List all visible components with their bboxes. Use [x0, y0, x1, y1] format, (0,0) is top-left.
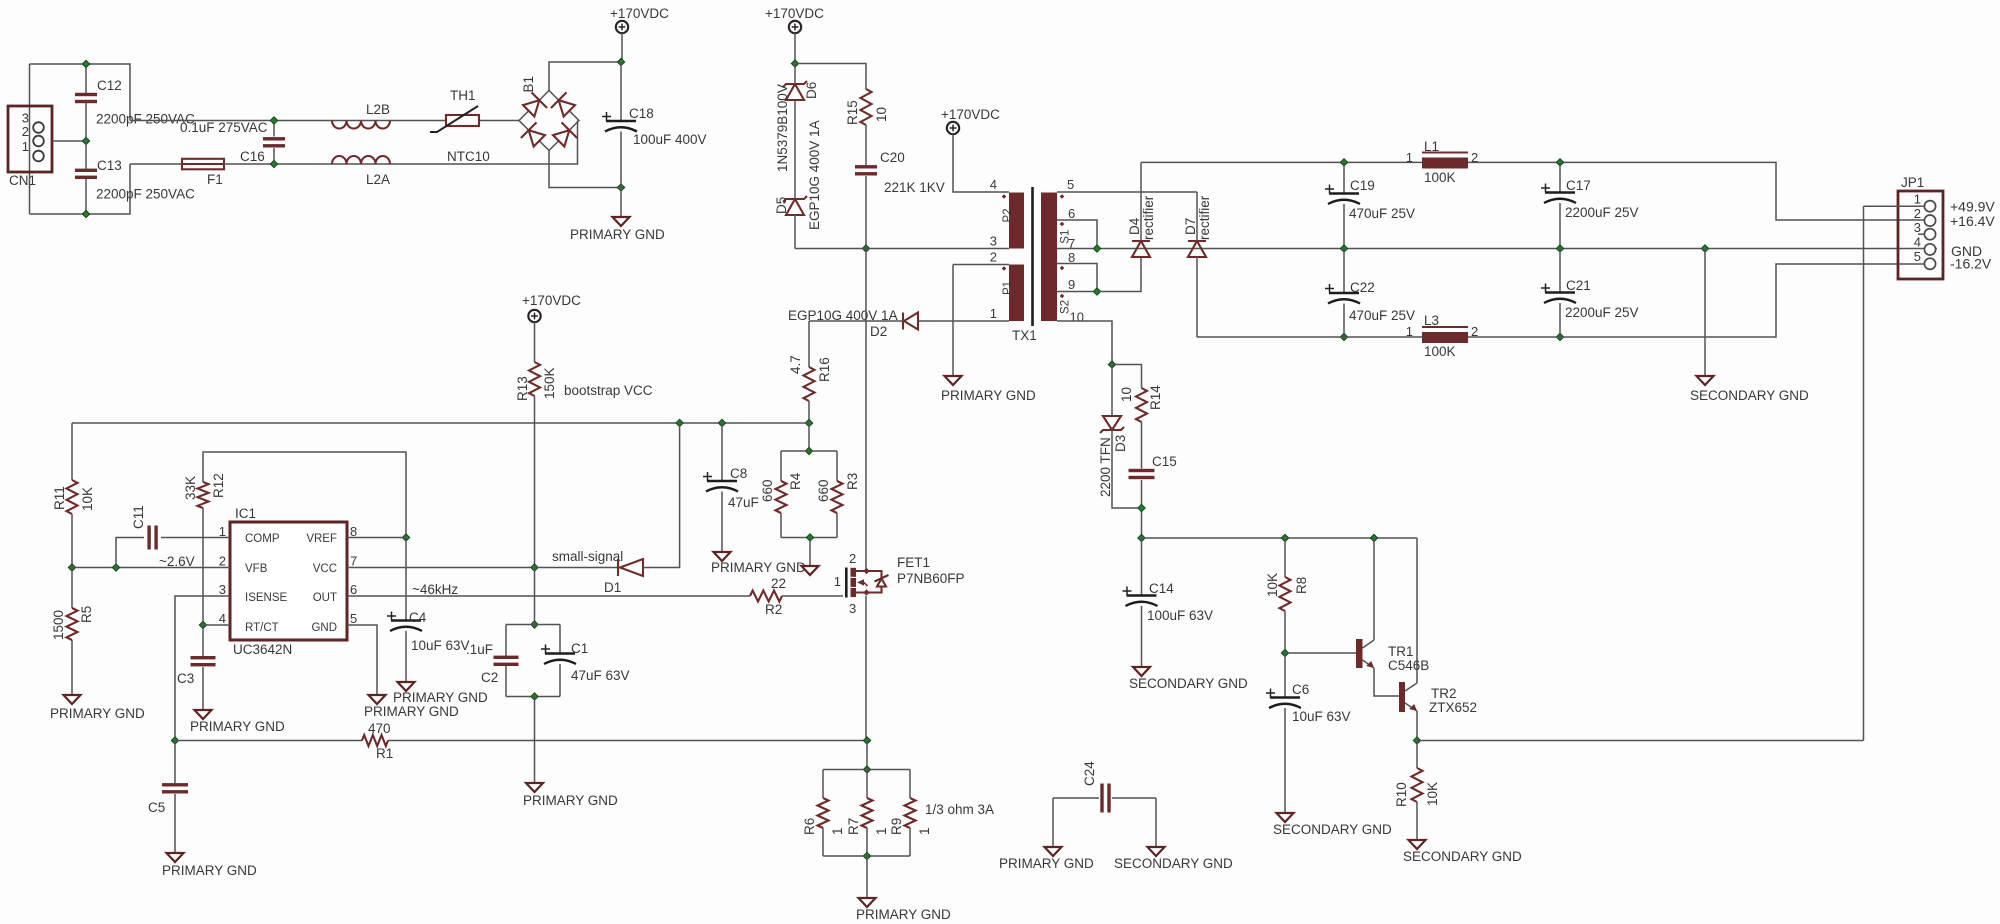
wire clamp top to R15 [795, 64, 866, 90]
svg-text:C546B: C546B [1388, 658, 1429, 673]
junction C12/C13 mid [82, 137, 89, 144]
svg-text:10: 10 [1070, 310, 1084, 325]
svg-text:R6: R6 [802, 818, 817, 835]
resistor R11 [67, 480, 78, 514]
wire C18 lower [620, 132, 622, 217]
ground SECONDARY GND (mid rail) [1697, 376, 1714, 385]
wire C6 top [1284, 653, 1286, 697]
svg-text:1: 1 [1406, 150, 1413, 165]
svg-text:C19: C19 [1350, 178, 1375, 193]
svg-text:COMP: COMP [245, 533, 280, 545]
svg-text:L2B: L2B [366, 102, 390, 117]
wire R7 upper [866, 770, 868, 799]
svg-text:C6: C6 [1292, 682, 1309, 697]
ground PRIMARY GND (C8) [714, 552, 731, 561]
svg-text:PRIMARY GND: PRIMARY GND [50, 706, 145, 721]
svg-text:3: 3 [1914, 220, 1921, 235]
svg-text:L1: L1 [1424, 139, 1439, 154]
wire +50V rail left [1141, 161, 1422, 163]
transistor TR1 (C546B) [1356, 639, 1374, 668]
svg-text:PRIMARY GND: PRIMARY GND [190, 719, 285, 734]
wire C2 top [505, 625, 507, 657]
svg-text:.1uF: .1uF [466, 642, 493, 657]
wire R14 to C15 [1141, 422, 1143, 469]
wire R15 to C20 [865, 125, 867, 165]
wire R9 upper [909, 770, 911, 799]
junction R4/R3 bottom [806, 534, 813, 541]
svg-text:2: 2 [849, 551, 856, 566]
diode D5 [783, 196, 807, 215]
svg-text:rectifier: rectifier [1141, 195, 1156, 240]
wire to secondary gnd [1704, 249, 1706, 376]
ground PRIMARY GND (IC1) [369, 695, 386, 704]
svg-text:C20: C20 [880, 150, 905, 165]
wire rail to R11 [71, 423, 73, 480]
wire C17 top [1559, 162, 1561, 191]
svg-text:0.1uF 275VAC: 0.1uF 275VAC [180, 120, 268, 135]
wire C4 to gnd [405, 631, 407, 681]
wire to C5 [174, 741, 176, 784]
svg-text:small-signal: small-signal [552, 549, 623, 564]
wire R16 to bootstrap rail [808, 401, 810, 423]
capacitor C20 [855, 165, 877, 175]
wire D5 anode to pin3 rail [794, 215, 796, 249]
svg-text:D3: D3 [1113, 435, 1128, 452]
capacitor C5 [162, 783, 188, 793]
svg-text:5: 5 [1067, 177, 1074, 192]
svg-text:1: 1 [917, 827, 932, 835]
wire C3 to gnd [202, 667, 204, 709]
svg-text:1: 1 [834, 574, 841, 589]
wire L1 to JP1 pin2 [1468, 162, 1924, 220]
wire C1 top [559, 625, 561, 653]
wire VFB line [72, 567, 230, 569]
ground SECONDARY GND (C24) [1148, 847, 1165, 856]
svg-text:OUT: OUT [313, 592, 337, 604]
junction C18 top [617, 58, 624, 65]
svg-text:10: 10 [1119, 387, 1134, 402]
svg-text:SECONDARY GND: SECONDARY GND [1403, 849, 1522, 864]
wire D6 to D5 [794, 100, 796, 199]
wire C16 bottom [273, 148, 275, 164]
wire C6 bottom [1284, 708, 1286, 812]
svg-text:D5: D5 [774, 197, 789, 214]
inductor L3 [1422, 327, 1468, 343]
wire RT/CT pin4 [203, 624, 230, 626]
junction C18 bottom [617, 184, 624, 191]
svg-text:6: 6 [1068, 206, 1075, 221]
wire C24 right [1112, 797, 1156, 799]
wire TX1 pin5 to D7 cathode [1057, 191, 1197, 193]
svg-text:UC3642N: UC3642N [233, 642, 292, 657]
wire C8 bottom [721, 492, 723, 552]
wire lower AC rail left [130, 163, 182, 165]
svg-text:470: 470 [368, 721, 391, 736]
wire C14 bottom [1141, 606, 1143, 666]
svg-text:C16: C16 [240, 149, 265, 164]
resistor R8 [1280, 577, 1291, 611]
resistor R10 [1412, 768, 1423, 802]
wire R8 lower [1284, 611, 1286, 653]
capacitor C2 [494, 656, 519, 666]
svg-text:P1: P1 [1002, 281, 1014, 295]
svg-text:C8: C8 [730, 466, 747, 481]
ground PRIMARY GND (C4) [398, 682, 415, 691]
wire R6 lower [822, 828, 824, 856]
wire R5 to gnd [71, 640, 73, 694]
svg-text:+170VDC: +170VDC [610, 6, 669, 21]
junction TR2 emitter [1413, 737, 1420, 744]
wire C1 bottom [559, 664, 561, 697]
wire bottom loop to lower AC rail [30, 164, 131, 214]
svg-text:100uF 400V: 100uF 400V [633, 132, 707, 147]
wire C12 bottom [85, 103, 87, 141]
svg-text:PRIMARY GND: PRIMARY GND [364, 704, 459, 719]
wire OUT line [347, 595, 750, 597]
ground PRIMARY GND (C1/C2) [526, 783, 543, 792]
wire +49.9V feedback riser [1863, 206, 1865, 740]
svg-text:NTC10: NTC10 [447, 149, 490, 164]
svg-text:CN1: CN1 [9, 173, 36, 188]
wire R6 upper [822, 770, 824, 799]
svg-text:660: 660 [760, 479, 775, 502]
wire C20 to pin3 rail [865, 176, 867, 249]
junction mid rail C19/C22 [1340, 245, 1347, 252]
junction D3/C15 [1138, 504, 1145, 511]
wire cap pair top [506, 624, 560, 626]
wire collector rail [1142, 537, 1418, 539]
wire +170VDC to D6 [794, 33, 796, 64]
capacitor C18 [602, 112, 637, 132]
resistor R1 [362, 735, 388, 746]
zener diode D3 [1100, 416, 1124, 433]
svg-text:PRIMARY GND: PRIMARY GND [999, 856, 1094, 871]
svg-text:+16.4V: +16.4V [1950, 213, 1995, 229]
wire C17 bottom [1559, 203, 1561, 249]
wire D7 cathode up [1196, 192, 1198, 241]
wire R12 bottom to RT/CT [202, 508, 204, 625]
svg-text:+170VDC: +170VDC [765, 6, 824, 21]
supply +170VDC (clamp) [789, 21, 801, 33]
ground SECONDARY GND (C14) [1133, 667, 1150, 676]
ground SECONDARY GND (C6) [1277, 813, 1294, 822]
junction FET source/R1 rail [863, 737, 870, 744]
svg-text:C17: C17 [1566, 178, 1591, 193]
ground PRIMARY GND (C3) [195, 710, 212, 719]
wire C8 top [721, 423, 723, 480]
ground SECONDARY GND (R10) [1409, 840, 1426, 849]
ground PRIMARY GND (C18) [613, 217, 630, 226]
wire R4/R3 bottom bar [781, 537, 837, 539]
junction C16 bottom [270, 160, 277, 167]
wire R4 upper [780, 451, 782, 481]
svg-text:10K: 10K [80, 487, 95, 511]
wire C16 top [273, 121, 275, 137]
zener diode D6 [783, 81, 807, 100]
svg-text:B1: B1 [521, 76, 536, 93]
svg-text:SECONDARY GND: SECONDARY GND [1114, 856, 1233, 871]
svg-text:150K: 150K [542, 367, 557, 399]
capacitor C22 [1325, 284, 1360, 304]
svg-text:C3: C3 [177, 671, 194, 686]
svg-text:C1: C1 [571, 641, 588, 656]
wire TX1 pin6 loop [1057, 220, 1097, 249]
junction C21 bottom [1556, 333, 1563, 340]
bridge rectifier B1 [519, 91, 579, 151]
svg-text:6: 6 [350, 582, 357, 597]
wire bootstrap VCC rail [72, 422, 809, 424]
wire C19 top [1343, 162, 1345, 192]
wire R11 to VFB node [71, 514, 73, 568]
svg-text:2200uF 25V: 2200uF 25V [1565, 305, 1639, 320]
svg-text:1N5379B100V: 1N5379B100V [775, 84, 790, 172]
wire C15 to collector rail [1141, 480, 1143, 538]
wire VFB node to R5 [71, 568, 73, 609]
svg-text:C21: C21 [1566, 278, 1591, 293]
diode D2 [903, 313, 918, 330]
wire D6 cathode [794, 64, 796, 85]
wire shunt bottom bar [823, 855, 910, 857]
connector CN1 [8, 106, 52, 172]
svg-text:C22: C22 [1350, 280, 1375, 295]
wire R1 rail left [175, 740, 362, 742]
svg-text:TX1: TX1 [1012, 328, 1037, 343]
thermistor TH1 [430, 106, 479, 132]
svg-text:4: 4 [219, 611, 226, 626]
wire R2 to FET gate [782, 595, 843, 597]
svg-text:4: 4 [1914, 235, 1921, 250]
resistor R9 [905, 798, 916, 828]
ground PRIMARY GND (shunt) [859, 898, 876, 907]
svg-text:GND: GND [311, 622, 337, 634]
svg-text:TR1: TR1 [1388, 644, 1414, 659]
wire TX1 pin8 loop [1057, 264, 1097, 292]
wire source to shunt top [866, 741, 868, 770]
svg-text:2200 TFN: 2200 TFN [1098, 437, 1113, 497]
capacitor C8 [703, 472, 738, 492]
svg-text:4.7: 4.7 [788, 355, 803, 374]
svg-text:33K: 33K [183, 476, 198, 500]
junction shunt top [863, 766, 870, 773]
wire emitter to +49.9V riser [1417, 740, 1864, 742]
junction pin10/R14/D3 [1108, 361, 1115, 368]
junction pin6/pin7 [1093, 245, 1100, 252]
svg-text:221K 1KV: 221K 1KV [884, 180, 945, 195]
wire C5 to gnd [174, 794, 176, 852]
wire shunt top bar [823, 769, 910, 771]
svg-text:SECONDARY GND: SECONDARY GND [1273, 822, 1392, 837]
wire R9 lower [909, 828, 911, 856]
junction C17 top [1556, 159, 1563, 166]
svg-text:P7NB60FP: P7NB60FP [897, 571, 965, 586]
svg-text:R16: R16 [817, 357, 832, 382]
junction mid rail C17/C21 [1556, 245, 1563, 252]
wire C11 to COMP pin1 [161, 537, 230, 539]
wire TR2 collector riser [1416, 538, 1418, 683]
junction C8 top [718, 419, 725, 426]
wire VREF to C4 [405, 538, 407, 620]
junction ISENSE/R1 [171, 737, 178, 744]
capacitor C19 [1325, 185, 1360, 205]
svg-text:RT/CT: RT/CT [245, 622, 279, 634]
svg-text:-16.2V: -16.2V [1950, 256, 1992, 272]
junction C2/C1 top [531, 621, 538, 628]
svg-text:3: 3 [219, 582, 226, 597]
wire D7 anode to bottom rail [1196, 257, 1198, 337]
svg-text:IC1: IC1 [235, 506, 256, 521]
wire JP1 pin1 [1864, 205, 1925, 207]
resistor R6 [818, 798, 829, 828]
wire C13 top [85, 141, 87, 169]
junction C16 top [270, 117, 277, 124]
inductor L2B [332, 121, 390, 129]
wire down to R16 [808, 321, 810, 367]
svg-text:5: 5 [1914, 249, 1921, 264]
svg-text:100K: 100K [1424, 344, 1456, 359]
capacitor C15 [1129, 469, 1155, 479]
svg-text:1: 1 [830, 827, 845, 835]
svg-text:1: 1 [22, 139, 29, 154]
wire R10 lower [1416, 802, 1418, 839]
svg-text:S1: S1 [1060, 230, 1072, 244]
svg-text:2: 2 [22, 124, 29, 139]
svg-text:D7: D7 [1183, 218, 1198, 235]
svg-text:S2: S2 [1060, 300, 1072, 314]
svg-text:470uF 25V: 470uF 25V [1349, 206, 1415, 221]
svg-text:10uF 63V: 10uF 63V [1292, 709, 1351, 724]
wire R13 to VCC node [534, 396, 536, 568]
transistor TR2 (ZTX652) [1399, 682, 1417, 712]
capacitor C21 [1541, 284, 1576, 304]
wire TX1 pin9 [1057, 291, 1097, 293]
wire C19 bottom [1343, 204, 1345, 249]
wire ISENSE down [175, 596, 230, 741]
svg-text:1: 1 [1914, 192, 1921, 207]
wire VREF pin8 [347, 537, 406, 539]
svg-text:JP1: JP1 [1901, 175, 1924, 190]
svg-text:R7: R7 [846, 818, 861, 835]
svg-text:100uF 63V: 100uF 63V [1147, 608, 1213, 623]
junction C2/C1 bottom [531, 693, 538, 700]
connector JP1 [1898, 191, 1943, 279]
wire R3 upper [836, 451, 838, 481]
inductor L1 [1422, 153, 1468, 169]
transformer TX1 [1002, 187, 1065, 326]
wire C18 upper [620, 62, 622, 120]
wire secondary mid rail (GND) [1057, 248, 1937, 250]
junction RT/CT [199, 621, 206, 628]
svg-text:2200pF 250VAC: 2200pF 250VAC [96, 187, 195, 202]
ground PRIMARY GND (TX1) [945, 376, 962, 385]
svg-text:D6: D6 [804, 82, 819, 99]
svg-text:470uF 25V: 470uF 25V [1349, 308, 1415, 323]
svg-text:D4: D4 [1127, 217, 1142, 235]
svg-text:R11: R11 [52, 486, 67, 510]
svg-text:3: 3 [990, 234, 997, 249]
svg-text:1500: 1500 [51, 610, 66, 640]
wire C2 bottom [505, 666, 507, 697]
junction clamp top [791, 60, 798, 67]
svg-text:R12: R12 [211, 473, 226, 498]
capacitor C13 [75, 169, 97, 179]
svg-text:PRIMARY GND: PRIMARY GND [711, 560, 806, 575]
svg-text:2: 2 [990, 250, 997, 265]
svg-text:ZTX652: ZTX652 [1429, 700, 1477, 715]
wire D4 cathode to top rail [1140, 162, 1142, 241]
wire upper AC rail [130, 120, 519, 122]
wire C24 left [1053, 797, 1099, 799]
wire C22 bottom [1343, 304, 1345, 338]
svg-text:R10: R10 [1394, 782, 1409, 807]
svg-text:C5: C5 [148, 800, 165, 815]
svg-text:1: 1 [1406, 324, 1413, 339]
svg-text:SECONDARY GND: SECONDARY GND [1690, 388, 1809, 403]
junction TR1 collector [1370, 534, 1377, 541]
svg-text:C13: C13 [97, 158, 122, 173]
ground PRIMARY GND (R4/R3) [802, 566, 819, 575]
resistor R16 [804, 367, 815, 401]
svg-text:PRIMARY GND: PRIMARY GND [856, 907, 951, 922]
svg-text:R5: R5 [79, 606, 94, 623]
svg-text:10K: 10K [1265, 573, 1280, 597]
junction pin8/pin9 [1093, 288, 1100, 295]
wire C14 top [1141, 538, 1143, 595]
ground PRIMARY GND (C24) [1045, 847, 1062, 856]
wire R4 lower [780, 513, 782, 538]
svg-text:PRIMARY GND: PRIMARY GND [393, 690, 488, 705]
wire TR2 emitter down [1416, 711, 1418, 741]
transistor FET1 (P7NB60FP) [846, 568, 888, 598]
wire R4/R3 top bar [781, 450, 837, 452]
svg-text:1/3 ohm 3A: 1/3 ohm 3A [925, 802, 994, 817]
junction R8/C6/TR1 base [1281, 649, 1288, 656]
svg-text:2200uF 25V: 2200uF 25V [1565, 205, 1639, 220]
wire TR1 base line [1285, 652, 1356, 654]
resistor R4 [776, 481, 787, 513]
capacitor C12 [75, 93, 97, 103]
junction C11 tap [112, 564, 119, 571]
svg-text:TR2: TR2 [1431, 686, 1457, 701]
diode D1 [618, 559, 643, 576]
svg-text:R13: R13 [515, 376, 530, 401]
wire R8 upper [1284, 538, 1286, 577]
wire L3 to JP1 pin5 [1468, 264, 1924, 337]
svg-text:FET1: FET1 [897, 555, 930, 570]
junction C14 top [1138, 534, 1145, 541]
svg-text:47uF: 47uF [728, 495, 759, 510]
wire to D3 cathode [1111, 365, 1113, 417]
svg-text:F1: F1 [207, 172, 223, 187]
wire TR1 collector [1373, 538, 1375, 640]
svg-text:10: 10 [874, 107, 889, 122]
capacitor C24 [1100, 784, 1110, 813]
wire VCC line [347, 567, 535, 569]
junction R4/R3 top [805, 447, 812, 454]
svg-text:C2: C2 [481, 670, 498, 685]
resistor R14 [1136, 388, 1147, 422]
svg-text:PRIMARY GND: PRIMARY GND [570, 227, 665, 242]
svg-text:47uF 63V: 47uF 63V [571, 668, 630, 683]
junction C12 top [82, 60, 89, 67]
svg-text:EGP10G 400V 1A: EGP10G 400V 1A [807, 120, 822, 230]
svg-text:+170VDC: +170VDC [522, 293, 581, 308]
wire +170VDC to TX1 pin4 [953, 134, 1009, 192]
wire D3 anode loop [1112, 430, 1142, 508]
wire RT/CT to C3 [202, 625, 204, 656]
junction secondary gnd stub [1701, 245, 1708, 252]
svg-text:C11: C11 [131, 505, 146, 529]
svg-text:1: 1 [874, 827, 889, 835]
